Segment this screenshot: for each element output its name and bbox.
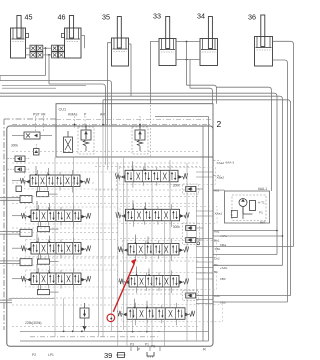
svg-text:46: 46 xyxy=(58,13,66,22)
svg-text:A-T1: A-T1 xyxy=(258,201,265,205)
svg-text:XBs: XBs xyxy=(215,247,221,251)
svg-text:P1: P1 xyxy=(145,343,149,347)
svg-text:PST VR: PST VR xyxy=(33,113,46,117)
svg-text:300k: 300k xyxy=(173,184,180,188)
svg-text:36: 36 xyxy=(248,13,256,22)
svg-text:LP1: LP1 xyxy=(48,353,54,357)
svg-text:39: 39 xyxy=(104,351,112,360)
svg-text:35: 35 xyxy=(102,13,110,22)
svg-text:34: 34 xyxy=(197,12,205,21)
svg-text:XAa2: XAa2 xyxy=(217,161,225,165)
svg-text:XAa1: XAa1 xyxy=(215,211,223,215)
svg-text:XBa2: XBa2 xyxy=(217,176,225,180)
svg-text:300k: 300k xyxy=(11,144,18,148)
svg-text:Aa1: Aa1 xyxy=(214,229,220,233)
svg-text:6AA-3: 6AA-3 xyxy=(226,161,235,165)
svg-text:Bb1: Bb1 xyxy=(214,239,220,243)
svg-text:33: 33 xyxy=(153,12,161,21)
svg-text:AR: AR xyxy=(100,113,105,117)
svg-text:P1: P1 xyxy=(259,211,263,215)
svg-text:P2: P2 xyxy=(32,353,36,357)
svg-text:P3: P3 xyxy=(130,343,134,347)
svg-text:45: 45 xyxy=(25,13,33,22)
svg-text:PS: PS xyxy=(151,345,155,349)
svg-text:P: P xyxy=(138,348,140,352)
svg-text:Cb2: Cb2 xyxy=(214,257,220,261)
svg-text:B6T: B6T xyxy=(260,221,266,225)
svg-text:Bb: Bb xyxy=(214,270,218,274)
svg-text:2: 2 xyxy=(217,119,222,129)
svg-text:XBb: XBb xyxy=(220,277,226,281)
svg-text:225k(300k): 225k(300k) xyxy=(25,321,42,325)
svg-text:CU1: CU1 xyxy=(59,108,67,112)
svg-text:6AA-1: 6AA-1 xyxy=(258,187,267,191)
svg-text:KMAs: KMAs xyxy=(68,113,78,117)
svg-text:+XAb: +XAb xyxy=(220,266,228,270)
svg-text:R: R xyxy=(203,347,206,352)
svg-text:Ab1: Ab1 xyxy=(214,188,220,192)
svg-text:300k: 300k xyxy=(173,225,180,229)
